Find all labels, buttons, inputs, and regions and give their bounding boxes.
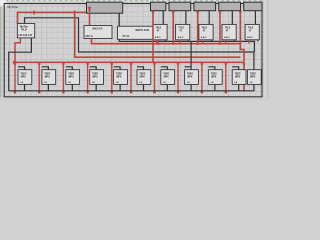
wire black top elbow DS1	[18, 67, 25, 70]
right margin strip	[263, 0, 269, 100]
component U2 mcu chip	[118, 26, 167, 39]
svg-text:A B C: A B C	[247, 36, 253, 39]
sheet edge ticks left	[0, 0, 2, 97]
svg-text:74LS: 74LS	[156, 27, 162, 30]
wire black pin top D3	[208, 11, 210, 25]
wire red drop DS2	[38, 62, 40, 92]
svg-text:MPX: MPX	[140, 76, 145, 78]
svg-text:MPX: MPX	[21, 76, 26, 78]
red wire end DS5	[111, 91, 113, 93]
wire red pin bottom D3	[202, 40, 204, 44]
svg-text:84C0 C4: 84C0 C4	[93, 28, 103, 31]
component A cropped gray box top	[87, 2, 123, 13]
svg-text:MyTime: MyTime	[8, 5, 19, 9]
bottom margin strip	[0, 98, 269, 100]
wire red drop 4 top-right	[219, 11, 221, 44]
svg-text:7SEG: 7SEG	[20, 73, 26, 75]
schematic sheet border frame	[4, 4, 262, 97]
wire red vertical x74 to mid red bus y57	[75, 10, 241, 57]
wire red bottom feeder bus y62.3	[14, 61, 244, 63]
red wire end DS2	[38, 91, 40, 93]
svg-text:XT AL: XT AL	[123, 35, 130, 38]
component U_left timer box	[17, 24, 34, 38]
component DS9 display box	[208, 70, 222, 85]
red wire end DS7	[153, 91, 155, 93]
svg-text:7SEG: 7SEG	[250, 73, 256, 75]
component D3 driver box	[199, 24, 213, 39]
red wire end DS1	[14, 91, 16, 93]
wire black bottom pin DS6	[143, 84, 145, 90]
wire black top elbow DS10	[232, 67, 239, 70]
component D2 driver box	[176, 24, 190, 39]
wire black top elbow DS4	[90, 67, 97, 70]
wire red drop DS1	[14, 62, 16, 92]
wire black bottom pin DS7	[166, 84, 168, 90]
component DS1 display box	[18, 70, 32, 85]
svg-text:7SEG: 7SEG	[235, 73, 241, 75]
cropped resistor pack RP4	[219, 2, 241, 11]
wire red drop 5 full height	[240, 11, 244, 91]
component DS10 display box	[232, 70, 246, 85]
wire red latch bottom long bus y43.7	[92, 39, 241, 44]
wire black elbow DS8	[185, 66, 192, 68]
svg-text:L40 L43 L44: L40 L43 L44	[18, 34, 32, 37]
svg-text:MPX: MPX	[187, 76, 192, 78]
wire black pin top D5	[254, 11, 256, 25]
svg-text:MPX: MPX	[93, 76, 98, 78]
junction red bus left end	[13, 61, 15, 63]
wire red pin bottom D1	[156, 40, 158, 44]
svg-text:7SEG: 7SEG	[68, 73, 74, 75]
svg-text:74LS: 74LS	[202, 27, 208, 30]
red wire end DS8	[177, 91, 179, 93]
wire black long vertical to DS8	[190, 41, 192, 69]
wire red drop DS4	[87, 62, 89, 92]
wire black top elbow DS6	[137, 67, 144, 70]
svg-text:MPX: MPX	[164, 76, 169, 78]
svg-text:MPX: MPX	[116, 76, 121, 78]
svg-text:MPX: MPX	[250, 76, 255, 78]
svg-text:AD LA: AD LA	[85, 35, 93, 38]
wire black top-left to mid bus y52	[25, 18, 255, 52]
red pin arrow in box A	[89, 7, 91, 13]
component D1 driver box	[153, 24, 167, 39]
wire black top elbow DS3	[66, 67, 73, 70]
wire black bottom pin DS9	[214, 84, 216, 90]
cropped resistor pack RP2	[169, 2, 191, 11]
wire red left box bottom to bottom bus	[15, 38, 20, 62]
wire black pin bottom D2	[187, 40, 189, 42]
svg-text:7SEG: 7SEG	[139, 73, 145, 75]
svg-text:74LS: 74LS	[225, 27, 231, 30]
wire black left box bottom to bottom rail	[9, 38, 32, 91]
svg-text:A B C: A B C	[155, 36, 161, 39]
wire black bottom pin DS1	[24, 84, 26, 90]
wire red drop DS5	[111, 62, 113, 92]
wire black bottom pin DS4	[95, 84, 97, 90]
svg-text:7SEG: 7SEG	[211, 73, 217, 75]
sheet edge ticks top	[0, 0, 262, 2]
wire red drop DS10	[225, 62, 227, 92]
wire black bottom pin DS5	[119, 84, 121, 90]
wire red drop DS8	[177, 62, 179, 92]
svg-text:7SEG: 7SEG	[44, 73, 50, 75]
component DS8 display box	[185, 70, 199, 85]
wire black pin top D1	[162, 11, 164, 25]
svg-text:7SEG: 7SEG	[187, 73, 193, 75]
junction red stub	[157, 43, 159, 45]
svg-text:74LS: 74LS	[248, 27, 254, 30]
wire black pin bottom D5	[257, 40, 259, 42]
component DS5 display box	[114, 70, 128, 85]
red wire end DS6	[130, 91, 132, 93]
wire black bottom pin DS11	[253, 84, 255, 90]
wire black top elbow DS2	[42, 67, 49, 70]
red wire end DS10	[225, 91, 227, 93]
wire red drop 3 top-right	[197, 11, 199, 44]
wire black mcu bottom long bus y41.4	[119, 39, 254, 52]
wire black pin bottom D4	[234, 40, 236, 42]
svg-text:A B C: A B C	[178, 36, 184, 39]
wire black top elbow DS5	[114, 67, 121, 70]
wire black bottom rail y90.8	[9, 90, 255, 92]
red wire end DS3	[62, 91, 64, 93]
wire black bottom pin DS10	[238, 84, 240, 90]
component DS3 display box	[66, 70, 80, 85]
wire black bottom pin DS8	[190, 84, 192, 90]
cropped resistor pack RP3	[194, 2, 216, 11]
red wire end DS4	[86, 91, 88, 93]
wire red drop DS9	[201, 62, 203, 92]
component DS7 display box	[161, 70, 175, 85]
wire red mcu stub	[157, 39, 159, 43]
svg-text:MPX: MPX	[45, 76, 50, 78]
wire red bus top-left y12	[18, 12, 87, 23]
wire black bottom pin DS2	[47, 84, 49, 90]
wire black pin bottom D1	[165, 40, 167, 42]
svg-text:RLD: RLD	[22, 28, 27, 31]
component U1 latch box	[84, 26, 112, 39]
corner white square	[0, 0, 6, 6]
svg-text:7SEG: 7SEG	[163, 73, 169, 75]
wire black bottom pin DS3	[71, 84, 73, 90]
component DS4 display box	[90, 70, 104, 85]
svg-text:7SEG: 7SEG	[116, 73, 122, 75]
wire red drop 2 top-right	[172, 11, 174, 44]
component DS11 display box right	[247, 70, 261, 85]
wire black pin top D2	[185, 11, 187, 25]
wire red pin bottom D2	[179, 40, 181, 44]
component D4 driver box	[222, 24, 236, 39]
wire black pin bottom D3	[211, 40, 213, 42]
cropped resistor pack RP1	[151, 2, 166, 11]
svg-text:A B C: A B C	[201, 36, 207, 39]
wire black top elbow DS7	[161, 67, 168, 70]
wire red pin bottom D4	[225, 40, 227, 44]
wire red pin bottom D5	[248, 40, 250, 44]
wire red drop DS3	[62, 62, 64, 92]
wire red drop DS7	[154, 62, 156, 92]
component DS6 display box	[137, 70, 151, 85]
red wire end DS9	[201, 91, 203, 93]
svg-text:A B C: A B C	[224, 36, 230, 39]
svg-text:MPX: MPX	[69, 76, 74, 78]
wire black pin top D4	[231, 11, 233, 25]
component D5 driver box	[245, 24, 259, 39]
wire red drop DS6	[130, 62, 132, 92]
wire red box A to latch	[89, 13, 91, 25]
svg-text:74LS: 74LS	[178, 27, 184, 30]
junction red tick	[33, 10, 35, 14]
cropped resistor pack RP5	[244, 2, 262, 11]
component DS2 display box	[42, 70, 56, 85]
svg-text:MPX: MPX	[211, 76, 216, 78]
svg-text:MPX: MPX	[235, 76, 240, 78]
wire black long pin DS11 top	[253, 52, 255, 70]
svg-text:89C51 AC8: 89C51 AC8	[136, 28, 150, 32]
wire black box A to mcu	[118, 13, 120, 26]
wire red drop 1 top-right	[152, 11, 154, 63]
wire black top elbow DS9	[208, 67, 215, 70]
svg-text:7SEG: 7SEG	[92, 73, 98, 75]
